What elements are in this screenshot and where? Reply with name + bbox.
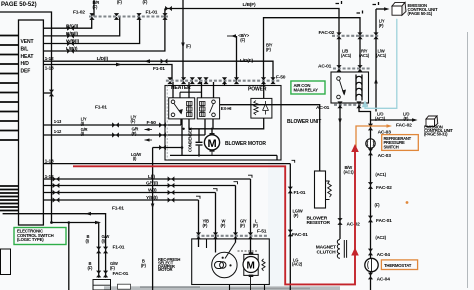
svg-text:THERMOSTAT: THERMOSTAT <box>384 263 412 268</box>
svg-text:BLOWER MOTOR: BLOWER MOTOR <box>225 141 266 147</box>
svg-text:W/B(I): W/B(I) <box>66 39 79 45</box>
svg-text:W(I): W(I) <box>148 188 157 194</box>
svg-text:B/L: B/L <box>21 47 29 53</box>
svg-text:1-13: 1-13 <box>45 159 54 165</box>
svg-text:F-50: F-50 <box>276 74 286 80</box>
svg-text:M: M <box>208 138 217 150</box>
svg-text:FAC-02: FAC-02 <box>396 123 412 129</box>
svg-text:F1-01: F1-01 <box>153 66 165 72</box>
svg-text:F1-01: F1-01 <box>146 10 158 16</box>
svg-text:F1-02: F1-02 <box>73 10 85 16</box>
svg-text:SWITCH: SWITCH <box>384 144 399 149</box>
svg-text:G/Y(I): G/Y(I) <box>146 181 158 187</box>
svg-text:EX-HI: EX-HI <box>221 106 231 111</box>
svg-text:(F): (F) <box>375 202 381 207</box>
svg-text:MAIN RELAY: MAIN RELAY <box>294 88 319 93</box>
svg-text:L/D(F): L/D(F) <box>240 58 253 64</box>
svg-text:(AC1): (AC1) <box>376 53 387 58</box>
svg-text:CLUTCH: CLUTCH <box>317 249 337 255</box>
svg-text:F-50: F-50 <box>147 120 157 126</box>
svg-text:L/B(I): L/B(I) <box>66 46 78 52</box>
svg-text:FAC-01: FAC-01 <box>292 232 308 238</box>
svg-text:(AC2): (AC2) <box>292 262 303 267</box>
svg-text:(AC2): (AC2) <box>375 235 386 240</box>
svg-text:AC-04: AC-04 <box>377 277 391 283</box>
svg-text:HEAT: HEAT <box>21 54 34 60</box>
svg-text:FAC-01: FAC-01 <box>113 271 129 277</box>
svg-text:AC-01: AC-01 <box>318 63 332 69</box>
svg-text:FAC-02: FAC-02 <box>319 30 335 36</box>
svg-text:FAC-02: FAC-02 <box>376 185 392 191</box>
svg-text:FAC-01: FAC-01 <box>376 218 392 224</box>
svg-text:F-51: F-51 <box>257 229 267 235</box>
svg-text:L/D(I): L/D(I) <box>97 56 109 62</box>
svg-text:1-13: 1-13 <box>54 119 62 124</box>
svg-text:F1-01: F1-01 <box>95 105 107 111</box>
svg-text:1-12: 1-12 <box>54 129 62 134</box>
svg-text:HEATER: HEATER <box>171 85 191 91</box>
svg-text:L(I): L(I) <box>148 174 155 180</box>
svg-text:F1-01: F1-01 <box>294 190 306 196</box>
svg-text:Y/B(I): Y/B(I) <box>146 195 158 201</box>
svg-text:H/D: H/D <box>21 61 30 67</box>
svg-text:F1-01: F1-01 <box>112 206 124 212</box>
svg-text:M: M <box>247 261 255 272</box>
svg-text:1-12: 1-12 <box>45 56 54 62</box>
svg-text:AC-03: AC-03 <box>378 153 392 159</box>
svg-text:(AC1): (AC1) <box>375 172 386 177</box>
svg-text:DEF: DEF <box>21 69 31 75</box>
svg-text:R/B(I): R/B(I) <box>66 31 78 37</box>
svg-text:PAGE 50-52): PAGE 50-52) <box>1 2 37 8</box>
svg-text:1-13: 1-13 <box>45 65 54 71</box>
svg-text:AC-04: AC-04 <box>377 252 391 258</box>
svg-text:AC-02: AC-02 <box>347 222 361 228</box>
svg-text:MOTOR: MOTOR <box>158 267 172 272</box>
svg-text:(PAGE 50-31): (PAGE 50-31) <box>408 11 433 16</box>
svg-text:BLOWER UNIT: BLOWER UNIT <box>287 119 321 125</box>
svg-text:CONDENSER: CONDENSER <box>188 127 193 152</box>
svg-text:F1-01: F1-01 <box>113 245 125 251</box>
svg-text:VENT: VENT <box>21 39 34 45</box>
svg-text:(AC1): (AC1) <box>344 169 355 174</box>
svg-text:(PAGE 50-31): (PAGE 50-31) <box>424 131 448 136</box>
svg-text:(AC1): (AC1) <box>375 116 386 121</box>
svg-text:L/B(F): L/B(F) <box>243 2 256 8</box>
svg-text:RESISTOR: RESISTOR <box>307 220 331 226</box>
svg-text:AC-01: AC-01 <box>316 105 330 111</box>
svg-text:R/G(I): R/G(I) <box>66 23 79 29</box>
svg-text:1-12: 1-12 <box>45 174 54 180</box>
svg-text:(AC1): (AC1) <box>341 53 352 58</box>
svg-text:(LOGIC TYPE): (LOGIC TYPE) <box>17 237 44 242</box>
svg-text:(AC1): (AC1) <box>359 53 370 58</box>
